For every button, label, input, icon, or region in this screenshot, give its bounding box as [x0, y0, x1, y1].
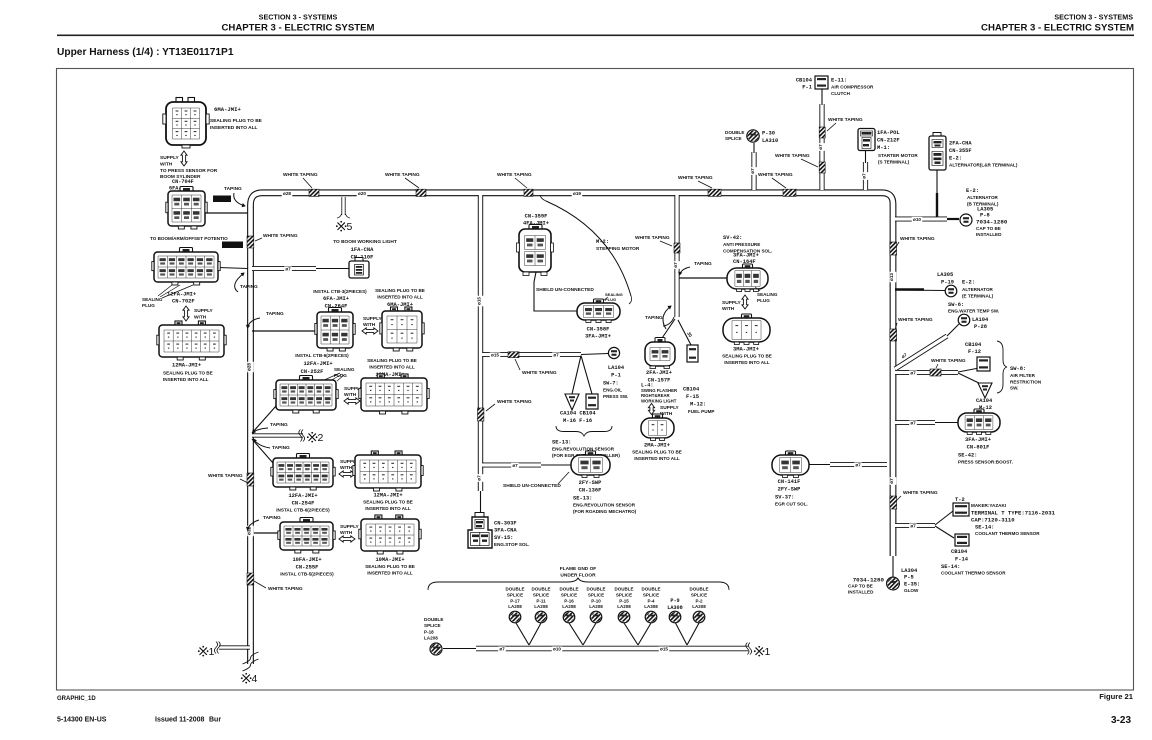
svg-text:5: 5 [347, 221, 353, 233]
svg-text:LA208: LA208 [424, 636, 438, 641]
svg-text:ø20: ø20 [358, 191, 366, 196]
connector 2FA-CHA CN-355F [933, 133, 941, 138]
wire trunk to CN-255F [252, 532, 280, 534]
svg-text:2: 2 [318, 432, 324, 444]
connector splice P-10 circle [590, 611, 602, 623]
svg-text:INSERTED INTO ALL: INSERTED INTO ALL [210, 125, 258, 131]
svg-text:3-23: 3-23 [1111, 715, 1131, 726]
svg-text:WHITE TAPING: WHITE TAPING [678, 175, 713, 181]
wire tube end to CA104 M-16 [572, 356, 581, 395]
connector T-2 terminal box [953, 503, 969, 516]
svg-text:1FA-POL: 1FA-POL [877, 130, 900, 136]
brace SE-13 EGR [556, 426, 612, 436]
label phi7 center trunk bottom [477, 474, 484, 482]
svg-text:DOUBLE: DOUBLE [690, 587, 709, 592]
brace flame gnd [428, 578, 729, 590]
wire trunk end curl [663, 317, 674, 326]
wire tube end to CA104 M-12 [958, 373, 983, 385]
svg-text:WHITE TAPING: WHITE TAPING [775, 153, 810, 159]
svg-text:ø7: ø7 [499, 647, 505, 652]
svg-text:ø7: ø7 [285, 267, 291, 272]
svg-text:ø7: ø7 [889, 478, 894, 484]
connector CN-704F 6FA-JMI+ [180, 187, 193, 193]
ref5 squiggle and mark [338, 223, 345, 230]
svg-text:E-2:: E-2: [962, 280, 975, 286]
svg-text:WHITE TAPING: WHITE TAPING [497, 399, 532, 405]
label phi7 P-30 tube [751, 167, 758, 175]
svg-text:2FA-JMI+: 2FA-JMI+ [646, 370, 672, 376]
svg-text:SPLICE: SPLICE [643, 592, 659, 597]
wire tube end to LA104 P-1 [581, 354, 608, 355]
svg-text:ø7: ø7 [818, 144, 823, 150]
svg-text:WHITE TAPING: WHITE TAPING [635, 235, 670, 241]
svg-text:TAPING: TAPING [694, 261, 712, 267]
svg-text:6FA-JMI+: 6FA-JMI+ [323, 296, 349, 302]
svg-text:12MA-JMI+: 12MA-JMI+ [373, 493, 402, 499]
svg-text:WHITE TAPING: WHITE TAPING [283, 172, 318, 178]
svg-text:12FA-JMI+: 12FA-JMI+ [288, 493, 317, 499]
wire bottom ground bus [476, 646, 748, 652]
svg-text:WHITE TAPING: WHITE TAPING [828, 117, 863, 123]
svg-text:TAPING: TAPING [645, 315, 663, 321]
svg-text:CAP TO BE: CAP TO BE [976, 226, 1001, 231]
svg-text:CN-212F: CN-212F [877, 138, 900, 144]
wire branch phi7 y525 to SE-14 [895, 523, 935, 528]
svg-text:ø28: ø28 [247, 363, 252, 371]
svg-text:6MA-JMI+: 6MA-JMI+ [214, 106, 241, 113]
connector 6MA-JMI+ plug CN-264F pair [391, 307, 398, 312]
svg-text:2FY-SWP: 2FY-SWP [778, 487, 801, 493]
wire tube to CN-801F oval [935, 422, 958, 424]
wire diag tube to LA104 P-28 circle [947, 324, 959, 336]
svg-text:PRESS SENSOR:BOOST.: PRESS SENSOR:BOOST. [958, 460, 1013, 465]
svg-text:CN-704F: CN-704F [172, 179, 194, 185]
connector splice P-15 circle [618, 611, 630, 623]
svg-text:2FA-CHA: 2FA-CHA [949, 141, 972, 147]
connector CN-264F 6FA-JMI+ [329, 308, 342, 314]
svg-text:GLOW: GLOW [904, 588, 919, 593]
label phi28 left trunk [247, 362, 254, 373]
svg-text:CB104: CB104 [683, 387, 700, 393]
svg-text:TAPING: TAPING [272, 445, 290, 451]
svg-text:STEPPING MOTOR: STEPPING MOTOR [596, 246, 640, 252]
connector CB104 F-16 box [586, 394, 598, 409]
svg-text:F-1: F-1 [802, 85, 812, 91]
svg-text:SW-7:: SW-7: [603, 381, 619, 387]
wire branch phi7 y465 [482, 463, 541, 468]
svg-text:ø15: ø15 [477, 297, 482, 305]
wire 2FA-CHA drop thick part [936, 193, 938, 217]
svg-text:SEALING PLUG TO BE: SEALING PLUG TO BE [375, 288, 425, 293]
svg-text:SPLICE: SPLICE [588, 592, 604, 597]
svg-text:2FY-SWP: 2FY-SWP [579, 480, 602, 486]
wire tube end to CB104 F-14 [935, 526, 954, 538]
svg-text:SV-37:: SV-37: [775, 495, 794, 501]
white taping hatch top trunk 5 [783, 189, 796, 196]
svg-text:ø7: ø7 [855, 463, 861, 468]
svg-text:10MA-JMI+: 10MA-JMI+ [375, 557, 404, 563]
svg-text:ALTERNATOR: ALTERNATOR [962, 287, 994, 292]
svg-text:SPLICE: SPLICE [561, 592, 577, 597]
svg-text:WITH: WITH [344, 392, 357, 398]
svg-text:WHITE TAPING: WHITE TAPING [931, 358, 966, 364]
white taping hatch E-11 tube 2 [819, 162, 825, 173]
svg-text:WHITE TAPING: WHITE TAPING [758, 172, 793, 178]
wire fan to CN-252F [252, 406, 276, 433]
svg-text:WORKING LIGHT: WORKING LIGHT [641, 398, 677, 403]
svg-text:SE-42:: SE-42: [958, 453, 977, 459]
svg-text:CA104: CA104 [976, 398, 993, 404]
svg-text:COOLANT THERMO SENSOR: COOLANT THERMO SENSOR [975, 531, 1040, 536]
svg-text:FLAME GND OF: FLAME GND OF [560, 566, 597, 572]
svg-text:SE-14:: SE-14: [941, 564, 960, 570]
svg-text:LA208: LA208 [692, 604, 706, 609]
connector CN-141F 2FY-SWP [786, 451, 796, 456]
svg-text:M-1:: M-1: [877, 145, 890, 151]
supply with arrow 2MA [648, 404, 654, 415]
ref2 squiggle [301, 430, 304, 442]
white taping hatch tube y372 [930, 369, 941, 376]
svg-text:TAPING: TAPING [263, 515, 281, 521]
svg-text:INSTAL CTB-6(2PIECES): INSTAL CTB-6(2PIECES) [295, 353, 349, 358]
connector 12MA-JMI+ plug CN-254F pair [371, 451, 378, 456]
svg-text:CN-303F: CN-303F [494, 521, 517, 527]
svg-text:ALTERNATOR: ALTERNATOR [967, 195, 999, 200]
svg-text:(S TERMINAL): (S TERMINAL) [878, 159, 910, 164]
svg-text:SPLICE: SPLICE [533, 592, 549, 597]
svg-text:ø7: ø7 [553, 353, 559, 358]
svg-text:P-19: P-19 [941, 280, 954, 286]
svg-text:ø10: ø10 [553, 647, 561, 652]
svg-text:LA208: LA208 [617, 604, 631, 609]
svg-text:SPLICE: SPLICE [616, 592, 632, 597]
svg-text:DOUBLE: DOUBLE [532, 587, 551, 592]
white taping hatch E-11 tube 1 [819, 127, 825, 138]
svg-text:CN-359F: CN-359F [525, 214, 548, 220]
svg-text:Issued 11-2008: Issued 11-2008 [155, 717, 205, 724]
white taping hatch center trunk [478, 408, 484, 421]
wire splice P-9 drop [675, 622, 687, 645]
svg-text:1: 1 [765, 646, 771, 658]
svg-text:M-12:: M-12: [690, 402, 706, 408]
label phi7 1FA-POL tube [862, 172, 869, 180]
brace SW-8 [997, 341, 1007, 393]
connector CN-303F [475, 513, 484, 518]
svg-text:SPLICE: SPLICE [424, 623, 441, 628]
svg-text:ø13: ø13 [889, 273, 894, 281]
connector 6MA-JMI+ sealing plug big [176, 98, 183, 104]
wire splice P-15 drop [624, 623, 638, 645]
svg-text:LA208: LA208 [562, 604, 576, 609]
svg-text:CB104: CB104 [965, 342, 982, 348]
svg-text:CN-141F: CN-141F [778, 479, 801, 485]
svg-text:(FOR ROADING MECHATRO): (FOR ROADING MECHATRO) [573, 509, 637, 514]
wire CN-141F to tube [808, 464, 830, 466]
white taping hatch left trunk 3 [247, 573, 254, 585]
svg-text:DOUBLE: DOUBLE [560, 587, 579, 592]
svg-text:E-2:: E-2: [949, 156, 962, 162]
svg-text:WHITE TAPING: WHITE TAPING [385, 172, 420, 178]
svg-text:TERMINAL T TYPE:7116-2031: TERMINAL T TYPE:7116-2031 [971, 510, 1056, 517]
svg-text:7034-1280: 7034-1280 [853, 577, 885, 584]
wire tube to 2FY-SWP [541, 464, 571, 466]
svg-text:12FA-JMI+: 12FA-JMI+ [167, 292, 196, 298]
svg-text:SW-8:: SW-8: [1010, 366, 1026, 372]
svg-text:WITH: WITH [363, 322, 376, 328]
wire sealing plug pointers CN-702F [158, 285, 193, 298]
wire center vertical trunk phi15 [478, 195, 483, 491]
svg-text:SEALING PLUG TO BE: SEALING PLUG TO BE [210, 118, 263, 124]
wire vertical trunk phi7 to CN-157F [674, 195, 679, 317]
connector LA305 P-19 circle [945, 285, 957, 297]
svg-text:Figure 21: Figure 21 [1099, 692, 1134, 701]
wire P-30 drop [753, 143, 755, 153]
svg-text:ENG.REVOLUTION SENSOR: ENG.REVOLUTION SENSOR [552, 447, 615, 452]
svg-text:ø28: ø28 [283, 191, 291, 196]
svg-text:DOUBLE: DOUBLE [615, 587, 634, 592]
label phi7 y354 tube [552, 352, 560, 358]
svg-text:E-11:: E-11: [831, 78, 847, 84]
wire branch phi10 to E-2 B terminal [895, 217, 947, 222]
svg-text:LA104: LA104 [608, 365, 625, 371]
wire main trunk left-vertical and top-horizontal and right-vertical [251, 193, 894, 664]
svg-text:LA308: LA308 [644, 604, 658, 609]
svg-text:MAKER:YAZAKI: MAKER:YAZAKI [971, 503, 1006, 508]
svg-text:TAPING: TAPING [224, 186, 242, 192]
wire trunk bottom to CN-303F [480, 491, 482, 517]
svg-text:ENG.OIL: ENG.OIL [603, 388, 622, 393]
svg-text:3MA-JMI+: 3MA-JMI+ [733, 347, 759, 353]
connector LA104 P-28 circle [958, 314, 970, 326]
svg-text:4: 4 [252, 673, 258, 685]
white taping hatch CN-157F trunk [674, 243, 680, 253]
svg-text:3FA-JMI+: 3FA-JMI+ [733, 253, 759, 259]
wire tube to 7034-1280 cap P-8 [947, 218, 959, 220]
connector splice P-2 circle [693, 611, 705, 623]
wire trunk to CN-264F [252, 330, 318, 332]
wire splice P-16 drop [569, 623, 583, 645]
label phi7 y525 tube [909, 523, 917, 529]
svg-text:DOUBLE: DOUBLE [506, 587, 525, 592]
svg-text:ø32: ø32 [247, 527, 252, 535]
svg-text:SHIELD UN-CONNECTED: SHIELD UN-CONNECTED [536, 287, 594, 293]
svg-text:INSTAL CTB-3(2PIECES): INSTAL CTB-3(2PIECES) [313, 289, 367, 294]
svg-text:CHAPTER 3 - ELECTRIC SYSTEM: CHAPTER 3 - ELECTRIC SYSTEM [981, 23, 1134, 34]
connector splice P-18 circle [430, 643, 442, 655]
svg-text:P-11: P-11 [536, 598, 546, 603]
svg-text:LA310: LA310 [762, 138, 778, 144]
svg-text:CA104 CB104: CA104 CB104 [560, 411, 596, 417]
wire CN-704F to trunk [205, 212, 248, 214]
svg-text:INSERTED INTO ALL: INSERTED INTO ALL [163, 377, 209, 382]
label phi7 CN157 trunk [674, 261, 681, 269]
svg-text:INSERTED INTO ALL: INSERTED INTO ALL [634, 456, 680, 461]
svg-text:SEALING PLUG TO BE: SEALING PLUG TO BE [632, 450, 682, 455]
ref1 mark right [756, 648, 763, 655]
connector CN-252F 12FA-JMI+ [300, 376, 313, 382]
svg-text:Upper Harness (1/4) : YT13E011: Upper Harness (1/4) : YT13E01171P1 [57, 47, 234, 58]
supply with arrow 12MA left [183, 306, 189, 321]
svg-text:CAP:7120-3110: CAP:7120-3110 [971, 517, 1015, 524]
svg-text:ø7: ø7 [910, 421, 916, 426]
connector splice P-16 circle [563, 611, 575, 623]
svg-text:CN-355F: CN-355F [949, 148, 972, 154]
svg-text:SECTION 3 - SYSTEMS: SECTION 3 - SYSTEMS [259, 13, 338, 22]
svg-text:CN-254F: CN-254F [292, 501, 315, 507]
svg-text:ø10: ø10 [913, 217, 921, 222]
wire diagonal branch to LA104 P-28 [895, 336, 947, 369]
connector CA104 M-16 triangle [565, 394, 579, 410]
svg-text:WITH: WITH [722, 306, 735, 312]
svg-text:AIR FILTER: AIR FILTER [1010, 373, 1036, 378]
wire splice P-4 drop [638, 623, 651, 645]
svg-text:P-4: P-4 [647, 598, 655, 603]
svg-text:SWING FLASHER: SWING FLASHER [641, 388, 678, 393]
white taping hatch top trunk 4 [708, 189, 721, 196]
svg-text:LA208: LA208 [534, 604, 548, 609]
svg-text:CLUTCH: CLUTCH [831, 91, 851, 96]
connector CN-255F 10FA-JMI+ [300, 518, 313, 524]
svg-text:7034-1280: 7034-1280 [976, 219, 1008, 226]
svg-text:FUEL PUMP: FUEL PUMP [688, 409, 714, 414]
svg-text:TO PRESS SENSOR FOR: TO PRESS SENSOR FOR [160, 168, 218, 174]
label ref2 mark [309, 434, 316, 441]
label phi15 y354 tube [490, 352, 501, 358]
svg-text:SEALING PLUG TO BE: SEALING PLUG TO BE [365, 564, 415, 569]
label phi13 right trunk [890, 272, 897, 283]
connector 2MA-JMI+ plug [653, 414, 663, 419]
header rule [57, 35, 1134, 37]
svg-text:M-16 F-16: M-16 F-16 [563, 418, 592, 424]
svg-text:WHITE TAPING: WHITE TAPING [208, 473, 243, 479]
svg-text:TAPING: TAPING [266, 311, 284, 317]
wire trunk to SV-42 CN-164F [679, 277, 727, 279]
label black tag TN303 [213, 196, 231, 203]
wire M-2 pointer curve [546, 201, 631, 296]
svg-text:RESTRICTION: RESTRICTION [1010, 379, 1042, 384]
connector splice P-9 circle [669, 611, 681, 623]
wire trunk end to CN-157F [660, 319, 675, 341]
svg-text:INSERTED INTO ALL: INSERTED INTO ALL [369, 365, 415, 370]
connector 1FA-POL CN-212F [858, 129, 875, 151]
svg-text:EGR CUT SOL.: EGR CUT SOL. [775, 502, 808, 507]
svg-text:P-9: P-9 [670, 598, 679, 604]
connector splice P-17 circle [509, 611, 521, 623]
svg-text:SW.: SW. [1010, 386, 1018, 391]
svg-text:SEALING PLUG TO BE: SEALING PLUG TO BE [363, 500, 413, 505]
connector CN-702F 12FA-JMI+ [180, 248, 193, 254]
svg-text:TAPING: TAPING [270, 422, 288, 428]
svg-text:SECTION 3 - SYSTEMS: SECTION 3 - SYSTEMS [1054, 13, 1133, 22]
white taping hatch right trunk 2 [890, 329, 897, 341]
white taping hatch top trunk 3 [524, 189, 533, 196]
svg-text:TO BOOM/ARM/OFFSET POTENTIO: TO BOOM/ARM/OFFSET POTENTIO [150, 236, 228, 241]
svg-text:SV-42:: SV-42: [723, 235, 742, 241]
svg-text:PLUG: PLUG [142, 303, 155, 308]
svg-text:INSTALLED: INSTALLED [976, 232, 1002, 237]
label phi7 CN-141F tube [854, 462, 862, 468]
svg-text:3FA-CNA: 3FA-CNA [494, 528, 517, 534]
connector CN-801F 3FA-JMI+ [974, 409, 984, 414]
white taping hatch top trunk 2 [416, 189, 426, 196]
svg-text:CN-252F: CN-252F [301, 369, 324, 375]
label phi7 right trunk low [890, 477, 897, 485]
connector CB104 F-12 box [977, 357, 990, 371]
white taping hatch top trunk 1 [309, 189, 319, 196]
svg-text:LA304: LA304 [901, 568, 918, 574]
svg-text:F-14: F-14 [955, 557, 969, 563]
connector CN-359F 4FA-JMI+ [529, 225, 542, 231]
svg-text:AIR COMPRESSOR: AIR COMPRESSOR [831, 85, 874, 90]
svg-text:SPLICE: SPLICE [725, 136, 742, 141]
svg-text:WHITE TAPING: WHITE TAPING [497, 172, 532, 178]
svg-text:ø7: ø7 [673, 262, 678, 268]
svg-text:CB104: CB104 [796, 78, 813, 84]
svg-text:(E TERMINAL): (E TERMINAL) [962, 293, 994, 298]
svg-text:WHITE TAPING: WHITE TAPING [268, 586, 303, 592]
svg-text:WHITE TAPING: WHITE TAPING [263, 233, 298, 239]
svg-text:INSTALLED: INSTALLED [848, 590, 874, 595]
svg-text:SUPPLY: SUPPLY [722, 300, 742, 306]
svg-text:CN-801F: CN-801F [967, 445, 990, 451]
label phi7 y268 tube [284, 266, 292, 272]
label black tag 24BK3B [222, 242, 243, 249]
connector CN-358F 3FA-JMI+ [594, 299, 604, 304]
connector CB104 F-15 box [687, 345, 698, 362]
ref4 mark bottom [243, 675, 250, 682]
svg-text:INSERTED INTO ALL: INSERTED INTO ALL [365, 506, 411, 511]
connector 2FY-SWP CN-136F [586, 451, 596, 456]
svg-text:COOLANT THERMO SENSOR: COOLANT THERMO SENSOR [941, 571, 1006, 576]
svg-text:SPLICE: SPLICE [691, 592, 707, 597]
wire drop tube P-30 [751, 152, 756, 190]
wire 2FA-CHA drop [936, 170, 938, 193]
wire 1FA-POL drop [865, 150, 867, 163]
svg-text:T-2: T-2 [955, 497, 965, 503]
svg-text:SEALING PLUG TO BE: SEALING PLUG TO BE [722, 354, 772, 359]
svg-text:P-28: P-28 [974, 324, 987, 330]
svg-text:3FA-JMI+: 3FA-JMI+ [585, 334, 611, 340]
svg-text:WITH: WITH [340, 465, 353, 471]
connector 7034-1280 cap P-8 circle [960, 214, 972, 226]
svg-text:LA208: LA208 [508, 604, 522, 609]
label phi7 y422 tube [909, 420, 917, 426]
svg-text:SEALING: SEALING [334, 367, 355, 372]
wire trunk bottom to glow cap [892, 556, 894, 577]
svg-text:12FA-JMI+: 12FA-JMI+ [303, 361, 332, 367]
svg-text:E-2:: E-2: [966, 188, 979, 194]
wire branch phi7 CN-141F [830, 462, 887, 467]
connector CA104 M-12 triangle [978, 383, 992, 398]
svg-text:F-12: F-12 [968, 349, 981, 355]
connector CN-254F 12FA-JMI+ [297, 454, 310, 460]
svg-text:2MA-JMI+: 2MA-JMI+ [644, 443, 670, 449]
connector 10MA-JMI+ plug CN-255F pair [375, 515, 382, 520]
wire E-11 connector drop [821, 88, 823, 105]
label phi15 ground bus [659, 646, 670, 652]
svg-text:P-5: P-5 [904, 575, 914, 581]
wire splice P-10 drop [583, 623, 596, 645]
svg-text:12MA-JMI+: 12MA-JMI+ [172, 363, 201, 369]
diagram frame [57, 69, 1134, 691]
svg-text:ø15: ø15 [660, 647, 668, 652]
svg-text:PRESS SW.: PRESS SW. [603, 394, 628, 399]
svg-text:CN-255F: CN-255F [296, 565, 319, 571]
svg-text:ENG.REVOLUTION SENSOR: ENG.REVOLUTION SENSOR [573, 503, 636, 508]
wire splice P-11 drop [529, 623, 541, 645]
svg-text:SUPPLY: SUPPLY [363, 316, 383, 322]
svg-text:DOUBLE: DOUBLE [642, 587, 661, 592]
